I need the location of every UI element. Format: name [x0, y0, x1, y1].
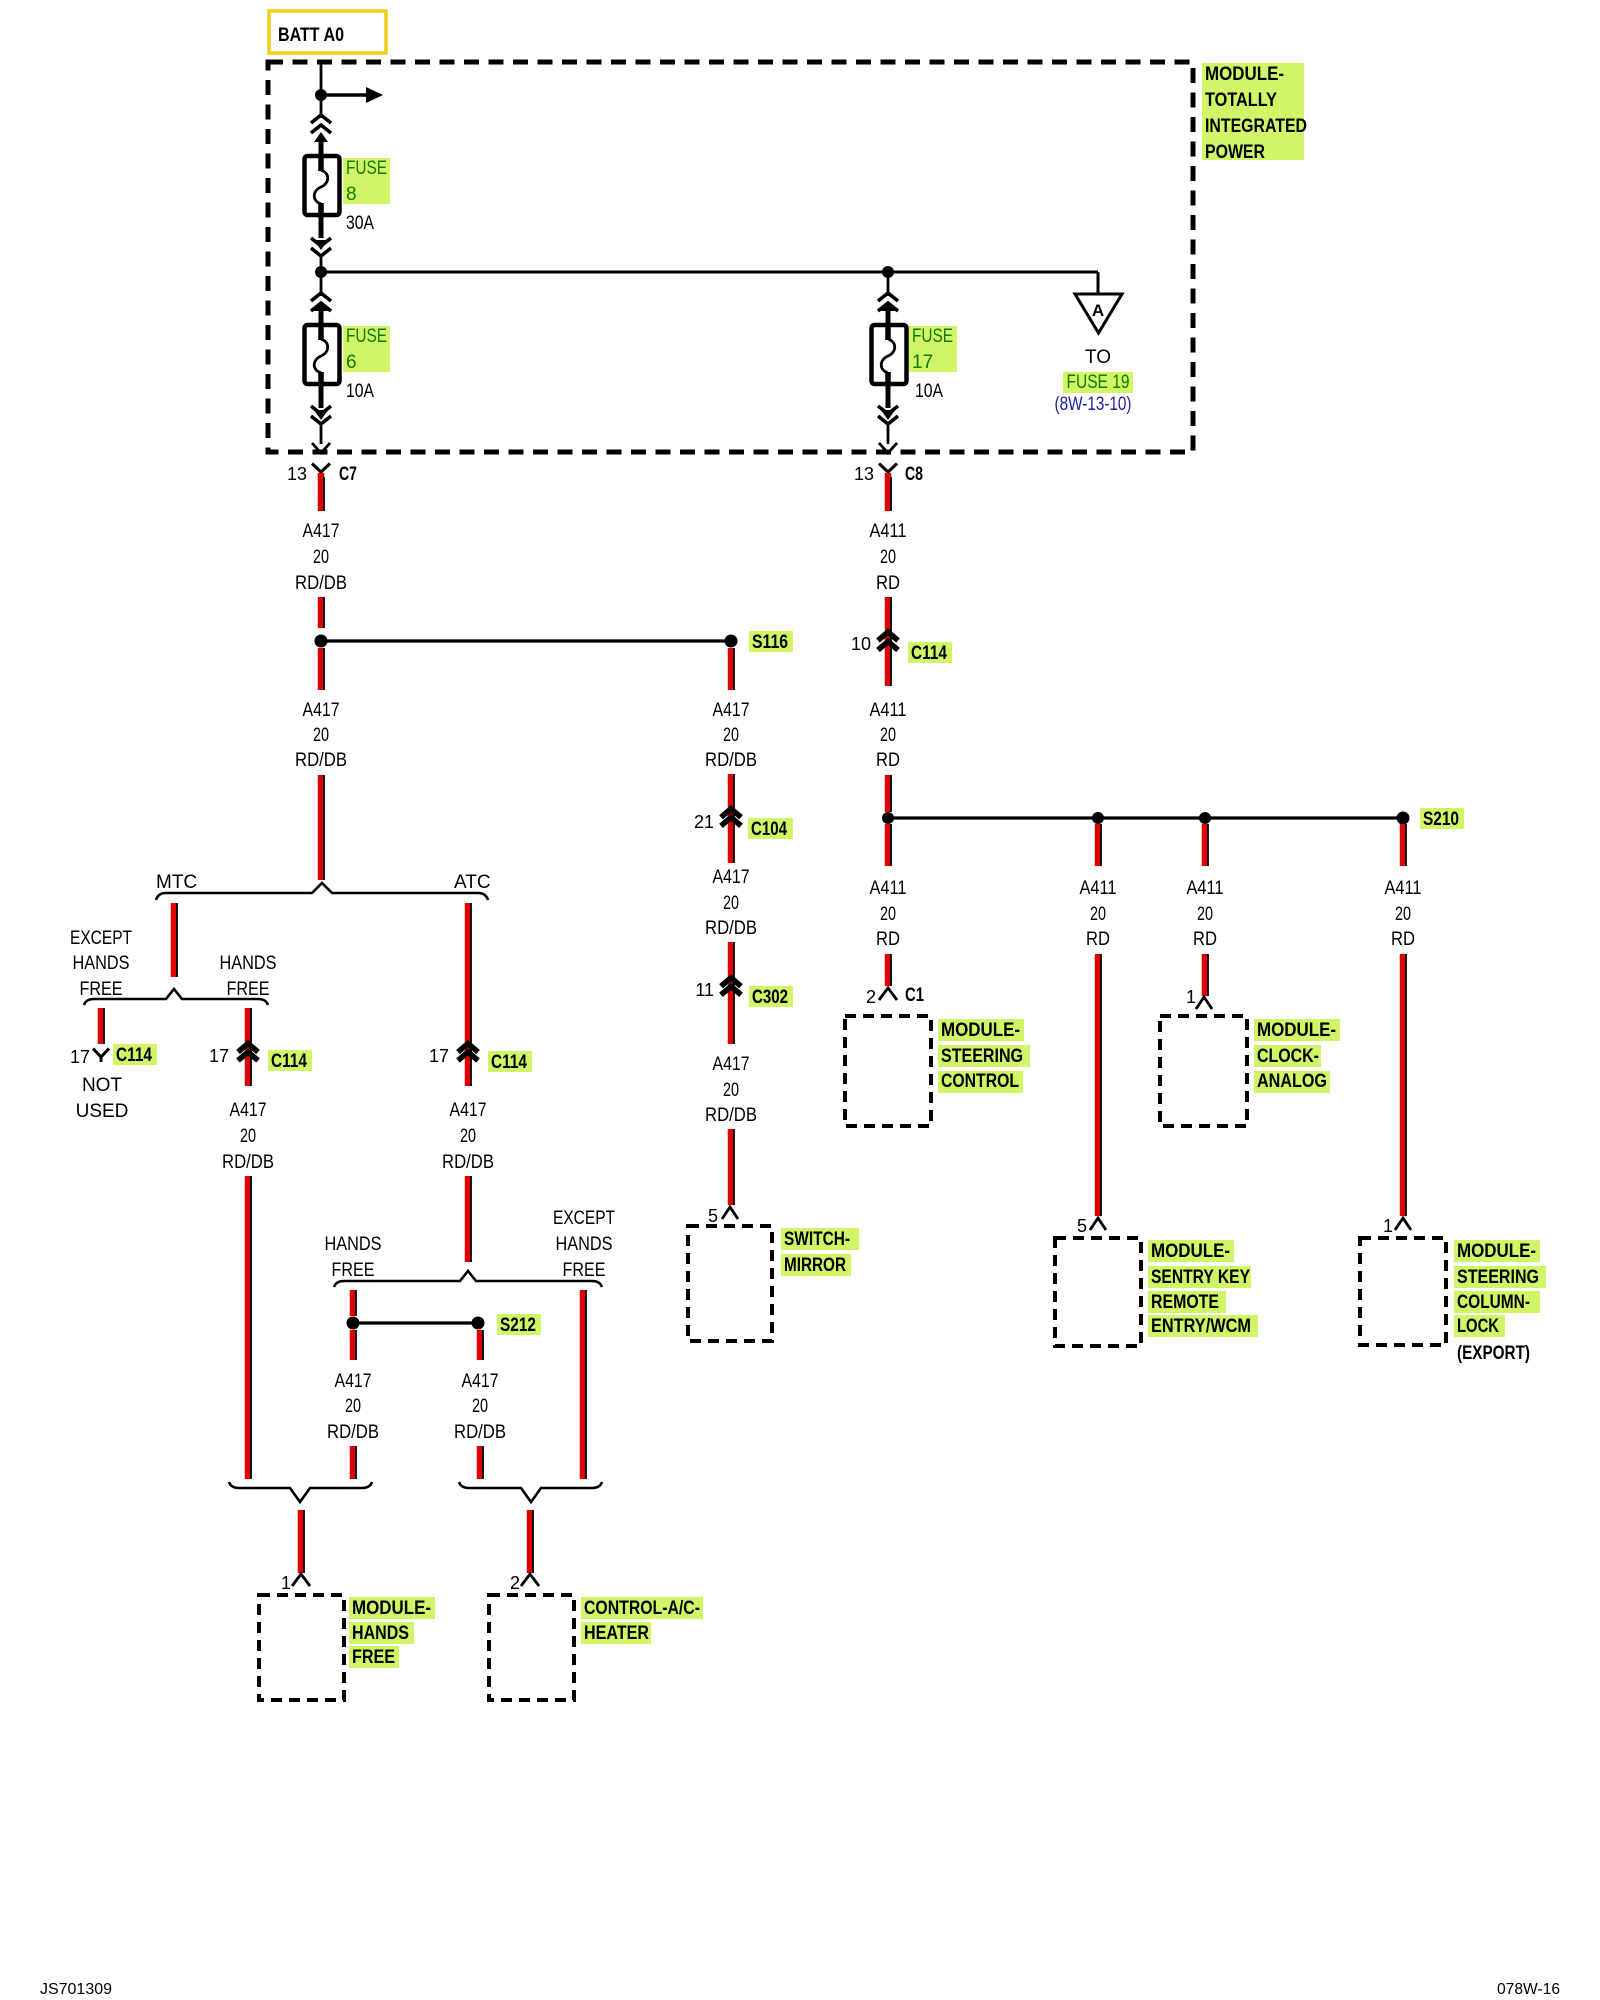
module box a/c heater control — [489, 1595, 574, 1700]
wire A411 red below C8 — [885, 473, 892, 511]
svg-text:A411: A411 — [1187, 878, 1224, 899]
svg-text:RD: RD — [876, 750, 900, 771]
connector C1 pin 2 — [879, 988, 897, 1000]
svg-text:20: 20 — [1395, 904, 1411, 925]
svg-text:C8: C8 — [905, 464, 923, 485]
svg-text:1: 1 — [281, 1573, 291, 1593]
svg-text:A417: A417 — [335, 1371, 372, 1392]
svg-text:5: 5 — [708, 1206, 718, 1226]
svg-text:20: 20 — [345, 1396, 361, 1417]
label MODULE-STEERING COLUMN-LOCK (EXPORT) — [1454, 1240, 1540, 1262]
svg-text:RD/DB: RD/DB — [705, 750, 757, 771]
svg-text:A: A — [1092, 301, 1104, 320]
svg-text:RD/DB: RD/DB — [705, 918, 757, 939]
wire red hands-free branch — [245, 1008, 252, 1086]
svg-text:USED: USED — [76, 1101, 129, 1122]
module box switch mirror — [688, 1226, 772, 1341]
svg-text:HEATER: HEATER — [584, 1623, 649, 1644]
svg-text:RD: RD — [1193, 929, 1217, 950]
svg-text:JS701309: JS701309 — [40, 1981, 112, 1998]
fuse F17 — [872, 325, 907, 384]
connector chevrons above fuse 17 — [887, 272, 890, 296]
module box steering column lock — [1360, 1238, 1446, 1345]
connector C8 pin 13 — [879, 464, 897, 477]
connector pin 1 hands free module — [292, 1574, 310, 1586]
connector C114 pin 17 hands free — [238, 1044, 258, 1061]
svg-text:A417: A417 — [450, 1100, 487, 1121]
wire A411 red clock branch — [1202, 824, 1209, 866]
wire arrow stub to right — [321, 93, 368, 97]
svg-text:SWITCH-: SWITCH- — [784, 1229, 850, 1250]
splice S210 — [1397, 812, 1410, 825]
arrow exiting TIPM at C7 — [312, 443, 330, 453]
svg-text:REMOTE: REMOTE — [1151, 1292, 1219, 1313]
svg-text:A411: A411 — [1080, 878, 1117, 899]
svg-text:STEERING: STEERING — [941, 1046, 1023, 1067]
wire red ATC branch — [465, 903, 472, 1086]
svg-text:ENTRY/WCM: ENTRY/WCM — [1151, 1316, 1251, 1337]
svg-text:C114: C114 — [911, 643, 947, 664]
connector pin 5 mirror switch — [722, 1207, 738, 1219]
brace split except/hands free — [84, 989, 268, 1005]
module box steering control — [845, 1016, 931, 1126]
node branch junction — [315, 89, 327, 101]
wire splice bus S212 — [353, 1321, 478, 1324]
wire horizontal bus inside TIPM — [321, 271, 1098, 274]
svg-text:C302: C302 — [752, 987, 788, 1008]
svg-text:20: 20 — [880, 904, 896, 925]
wire splice bus S210 — [888, 816, 1403, 819]
svg-text:S116: S116 — [752, 632, 788, 653]
connector C104 pin 21 in-line — [721, 809, 741, 826]
brace merge to hands free module — [229, 1482, 372, 1502]
node junction sentry key branch — [1092, 812, 1104, 824]
label MODULE-SENTRY KEY REMOTE ENTRY/WCM — [1148, 1240, 1234, 1262]
connector chevrons below fuse 8 — [311, 238, 331, 256]
svg-text:FREE: FREE — [227, 979, 270, 1000]
wire A417 red C7 to S116 junction — [318, 473, 325, 511]
svg-text:RD/DB: RD/DB — [442, 1152, 494, 1173]
svg-text:10A: 10A — [915, 381, 943, 402]
svg-text:A417: A417 — [462, 1371, 499, 1392]
svg-text:C104: C104 — [751, 819, 787, 840]
svg-text:RD/DB: RD/DB — [295, 750, 347, 771]
label SWITCH-MIRROR — [781, 1228, 859, 1250]
svg-text:MODULE-: MODULE- — [1457, 1241, 1536, 1262]
svg-text:A411: A411 — [1385, 878, 1422, 899]
splice S116 — [725, 635, 738, 648]
svg-text:MODULE-: MODULE- — [1257, 1020, 1336, 1041]
svg-text:30A: 30A — [346, 213, 374, 234]
svg-text:078W-16: 078W-16 — [1497, 1981, 1560, 1998]
module box hands free — [259, 1595, 344, 1700]
svg-text:2: 2 — [510, 1573, 520, 1593]
label MODULE-STEERING CONTROL — [938, 1019, 1024, 1041]
svg-text:11: 11 — [695, 980, 714, 1000]
wire A411 red steering-control branch — [885, 824, 892, 866]
svg-text:RD: RD — [876, 929, 900, 950]
svg-text:C7: C7 — [339, 464, 357, 485]
wire splice bus to S116 — [321, 639, 731, 642]
svg-text:RD/DB: RD/DB — [454, 1422, 506, 1443]
wire below fuse 8 with arrowhead — [319, 215, 324, 238]
svg-text:20: 20 — [1090, 904, 1106, 925]
svg-text:RD/DB: RD/DB — [327, 1422, 379, 1443]
svg-text:10A: 10A — [346, 381, 374, 402]
svg-text:20: 20 — [240, 1126, 256, 1147]
connector pin 1 column lock — [1395, 1218, 1411, 1230]
connector chevrons above fuse 6 — [320, 272, 323, 296]
svg-text:20: 20 — [880, 547, 896, 568]
arrow exiting TIPM at C8 — [879, 443, 897, 453]
wire A411 red sentry key branch — [1095, 824, 1102, 866]
brace split MTC/ATC — [156, 883, 488, 900]
connector chevrons below fuse 6 — [311, 406, 331, 424]
svg-text:CONTROL: CONTROL — [941, 1071, 1019, 1092]
svg-text:A417: A417 — [230, 1100, 267, 1121]
svg-text:HANDS: HANDS — [73, 953, 130, 974]
svg-text:RD: RD — [876, 573, 900, 594]
svg-text:MODULE-: MODULE- — [1151, 1241, 1230, 1262]
connector C302 pin 11 in-line — [721, 978, 741, 995]
svg-text:20: 20 — [460, 1126, 476, 1147]
fuse F8 — [305, 156, 340, 215]
svg-text:17: 17 — [429, 1046, 449, 1066]
svg-text:A417: A417 — [713, 1054, 750, 1075]
svg-text:20: 20 — [723, 1080, 739, 1101]
connector C114 pin 17 not used — [93, 1049, 109, 1063]
svg-text:MODULE-: MODULE- — [941, 1020, 1020, 1041]
wire red except-hands-free stub — [98, 1008, 105, 1044]
svg-text:17: 17 — [209, 1046, 229, 1066]
svg-text:A417: A417 — [713, 700, 750, 721]
svg-text:RD: RD — [1391, 929, 1415, 950]
svg-text:FUSE: FUSE — [346, 158, 387, 179]
module box clock analog — [1160, 1016, 1247, 1126]
wire A411 red steering column lock branch — [1400, 824, 1407, 866]
svg-text:A417: A417 — [303, 700, 340, 721]
svg-text:SENTRY KEY: SENTRY KEY — [1151, 1267, 1250, 1288]
connector pin 2 a/c heater — [521, 1574, 539, 1586]
wire from BATT A0 into TIPM — [320, 62, 323, 118]
svg-text:A411: A411 — [870, 521, 907, 542]
svg-text:ANALOG: ANALOG — [1257, 1071, 1327, 1092]
svg-text:HANDS: HANDS — [556, 1234, 613, 1255]
svg-text:20: 20 — [1197, 904, 1213, 925]
svg-text:FUSE: FUSE — [912, 326, 953, 347]
svg-text:MIRROR: MIRROR — [784, 1255, 846, 1276]
svg-text:13: 13 — [854, 464, 874, 484]
fuse F6 — [305, 325, 340, 384]
svg-text:HANDS: HANDS — [352, 1623, 409, 1644]
svg-text:S212: S212 — [500, 1315, 536, 1336]
svg-text:A417: A417 — [713, 867, 750, 888]
svg-text:RD: RD — [1086, 929, 1110, 950]
svg-text:17: 17 — [70, 1047, 90, 1067]
svg-text:TOTALLY: TOTALLY — [1205, 90, 1277, 111]
svg-text:TO: TO — [1085, 347, 1111, 368]
svg-text:COLUMN-: COLUMN- — [1457, 1292, 1530, 1313]
node fuse-8 output junction — [315, 266, 327, 278]
splice S212 — [472, 1317, 485, 1330]
node splice junction at S116 bus left — [315, 635, 328, 648]
node junction to fuse 17 — [882, 266, 894, 278]
wire red except-hands-free long run — [580, 1290, 587, 1479]
svg-text:MODULE-: MODULE- — [352, 1598, 431, 1619]
connector C114 pin 10 in-line — [878, 632, 898, 650]
svg-text:13: 13 — [287, 464, 307, 484]
svg-text:10: 10 — [851, 634, 871, 654]
connector pin 5 sentry key — [1090, 1218, 1106, 1230]
module box sentry key — [1055, 1238, 1141, 1346]
label MODULE-CLOCK-ANALOG — [1254, 1019, 1340, 1041]
svg-text:INTEGRATED: INTEGRATED — [1205, 116, 1307, 137]
svg-text:C114: C114 — [271, 1051, 307, 1072]
svg-text:FREE: FREE — [352, 1647, 395, 1668]
label CONTROL-A/C-HEATER — [581, 1597, 703, 1619]
brace merge to a/c heater control — [459, 1482, 602, 1502]
svg-text:CLOCK-: CLOCK- — [1257, 1046, 1319, 1067]
wire red stub to S212 left — [350, 1290, 357, 1316]
svg-text:HANDS: HANDS — [220, 953, 277, 974]
node splice junction S210 bus start — [882, 812, 894, 824]
svg-text:STEERING: STEERING — [1457, 1267, 1539, 1288]
wire red MTC stub — [171, 903, 178, 977]
svg-text:(8W-13-10): (8W-13-10) — [1055, 394, 1132, 415]
svg-text:RD/DB: RD/DB — [705, 1105, 757, 1126]
label MODULE-TOTALLY INTEGRATED POWER — [1202, 63, 1304, 160]
label FUSE 6 10A — [343, 326, 390, 372]
svg-text:FREE: FREE — [80, 979, 123, 1000]
svg-text:BATT A0: BATT A0 — [278, 25, 344, 46]
svg-text:20: 20 — [723, 893, 739, 914]
module U1 TIPM dashed outline — [268, 62, 1193, 452]
wire red to hands free module — [298, 1510, 305, 1573]
svg-text:17: 17 — [912, 352, 933, 373]
svg-text:FREE: FREE — [563, 1260, 606, 1281]
off-page reference triangle A — [1075, 294, 1122, 333]
wire below fuse 6 with arrowhead — [319, 384, 324, 408]
wire A417 red below splice toward MTC/ATC split — [318, 648, 325, 690]
connector C7 pin 13 — [312, 464, 330, 477]
label FUSE 17 10A — [909, 326, 957, 372]
svg-text:20: 20 — [313, 725, 329, 746]
connector chevrons below fuse 17 — [878, 406, 898, 424]
svg-text:21: 21 — [694, 812, 714, 832]
svg-text:RD/DB: RD/DB — [295, 573, 347, 594]
svg-text:EXCEPT: EXCEPT — [553, 1208, 615, 1229]
label MODULE-HANDS FREE — [349, 1597, 435, 1619]
svg-text:CONTROL-A/C-: CONTROL-A/C- — [584, 1598, 700, 1619]
svg-text:(EXPORT): (EXPORT) — [1457, 1343, 1530, 1364]
svg-text:1: 1 — [1383, 1216, 1393, 1236]
splice S212 left node — [347, 1317, 360, 1330]
connector C114 pin 17 ATC — [458, 1044, 478, 1061]
svg-text:A417: A417 — [303, 521, 340, 542]
svg-text:S210: S210 — [1423, 809, 1459, 830]
svg-text:20: 20 — [472, 1396, 488, 1417]
svg-text:NOT: NOT — [82, 1075, 123, 1096]
wire A417 red below S212 left — [350, 1330, 357, 1360]
svg-text:20: 20 — [723, 725, 739, 746]
svg-text:C1: C1 — [905, 985, 924, 1006]
wire A417 red below S212 right — [477, 1330, 484, 1360]
svg-text:8: 8 — [346, 184, 357, 205]
svg-text:RD/DB: RD/DB — [222, 1152, 274, 1173]
svg-text:HANDS: HANDS — [325, 1234, 382, 1255]
wire below fuse 17 with arrowhead — [886, 384, 891, 408]
svg-text:5: 5 — [1077, 1216, 1087, 1236]
svg-text:ATC: ATC — [454, 872, 491, 893]
svg-text:A411: A411 — [870, 700, 907, 721]
node junction clock branch — [1199, 812, 1211, 824]
wire stub to off-page arrow A — [1097, 272, 1100, 294]
battery feed box BATT A0 — [269, 11, 386, 53]
brace split hands-free / except-hands-free — [334, 1271, 602, 1287]
svg-text:2: 2 — [866, 987, 876, 1007]
label FUSE 8 30A — [343, 158, 390, 204]
svg-text:POWER: POWER — [1205, 142, 1265, 163]
svg-text:FUSE 19: FUSE 19 — [1067, 372, 1130, 393]
svg-text:C114: C114 — [116, 1045, 152, 1066]
svg-text:MTC: MTC — [156, 872, 197, 893]
wire red to a/c heater control — [527, 1510, 534, 1573]
svg-text:20: 20 — [313, 547, 329, 568]
svg-text:FUSE: FUSE — [346, 326, 387, 347]
svg-text:20: 20 — [880, 725, 896, 746]
svg-text:6: 6 — [346, 352, 357, 373]
svg-text:1: 1 — [1186, 987, 1196, 1007]
svg-text:FREE: FREE — [332, 1260, 375, 1281]
svg-text:C114: C114 — [491, 1052, 527, 1073]
svg-text:A411: A411 — [870, 878, 907, 899]
svg-text:LOCK: LOCK — [1457, 1316, 1499, 1337]
connector pin 1 clock — [1196, 997, 1212, 1009]
svg-text:MODULE-: MODULE- — [1205, 64, 1284, 85]
connector chevrons above fuse 8 — [311, 115, 331, 133]
wire A417 red below S116 — [728, 648, 735, 690]
svg-text:EXCEPT: EXCEPT — [70, 928, 132, 949]
